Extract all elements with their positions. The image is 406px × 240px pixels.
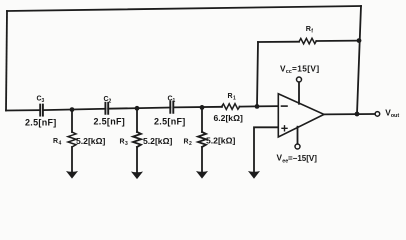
ground of R3 [131,147,143,179]
node junction 1 [70,107,75,112]
svg-text:6.2[kΩ]: 6.2[kΩ] [214,113,243,123]
svg-text:4: 4 [59,140,62,146]
wire right feedback [357,6,361,114]
svg-text:5.2[kΩ]: 5.2[kΩ] [143,136,172,146]
wire left feedback [6,11,7,111]
wire chain segment D [173,106,222,109]
svg-text:out: out [391,113,400,119]
resistor R1 [214,93,243,123]
svg-text:=15[V]: =15[V] [292,64,320,74]
ground of non-inverting input [248,171,260,179]
resistor R2 [184,107,236,147]
wire chain segment B [43,109,105,110]
svg-text:5.2[kΩ]: 5.2[kΩ] [206,135,235,145]
Vcc supply terminal [280,64,320,104]
svg-text:5.2[kΩ]: 5.2[kΩ] [76,136,105,146]
svg-text:1: 1 [173,98,176,104]
svg-text:cc: cc [286,69,292,75]
output terminal Vout [375,107,399,119]
resistor Rf [299,24,316,44]
capacitor C3 [25,96,57,128]
svg-text:f: f [311,29,313,35]
wire feedback top to resistor [258,41,299,43]
ground of R2 [196,147,208,179]
wire feedback branch up from inverting node [257,42,258,106]
wire top feedback [7,6,361,11]
svg-text:3: 3 [125,141,128,147]
svg-text:R: R [120,138,125,145]
wire op-amp output [324,113,375,115]
capacitor C1 [154,96,186,127]
svg-text:2.5[nF]: 2.5[nF] [25,117,57,127]
svg-text:2.5[nF]: 2.5[nF] [94,116,126,126]
wire non-inverting input to ground [254,127,278,172]
svg-text:2: 2 [109,98,112,104]
capacitor C2 [94,96,126,127]
op-amp U1 [278,94,324,137]
resistor R4 [53,110,105,147]
svg-text:R: R [53,138,58,145]
Vee supply terminal [277,127,318,165]
svg-text:2: 2 [189,141,192,147]
node junction inverting input [255,104,260,109]
wire chain segment E to inverting input [240,105,279,108]
svg-text:2.5[nF]: 2.5[nF] [154,117,186,127]
node junction 3 [200,105,205,110]
svg-text:3: 3 [42,98,45,104]
wire from Rf to right feedback wire [316,40,359,42]
node junction output [355,112,360,117]
svg-text:=−15[V]: =−15[V] [288,154,317,163]
wire chain segment C [108,108,170,109]
resistor R3 [120,108,173,147]
svg-text:1: 1 [233,95,236,101]
ground of R4 [66,147,78,179]
node junction 2 [135,106,140,111]
wire chain segment A [6,109,40,111]
node junction Rf right [357,38,362,43]
svg-text:R: R [184,138,189,145]
svg-text:R: R [228,93,233,100]
